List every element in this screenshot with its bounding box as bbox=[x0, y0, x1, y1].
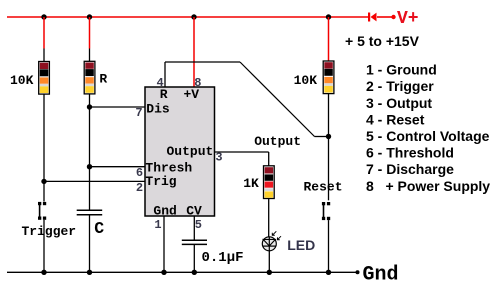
switch S1 Trigger bbox=[38, 202, 46, 220]
svg-text:3: 3 bbox=[215, 151, 222, 165]
svg-text:Dis: Dis bbox=[146, 101, 170, 116]
resistor R4 1K bbox=[264, 166, 275, 199]
svg-text:10K: 10K bbox=[10, 73, 34, 88]
diode D1 bbox=[368, 13, 396, 22]
svg-text:5: 5 bbox=[195, 218, 202, 232]
wire R1 to trigger switch bbox=[43, 94, 45, 202]
node junction gnd C2 bbox=[192, 270, 197, 275]
svg-text:Trigger: Trigger bbox=[22, 224, 77, 239]
svg-text:Gnd: Gnd bbox=[363, 264, 399, 287]
wire reset switch to rail bbox=[328, 220, 330, 272]
node junction top D bbox=[326, 14, 331, 19]
svg-text:7 - Discharge: 7 - Discharge bbox=[366, 161, 454, 177]
svg-text:Output: Output bbox=[166, 144, 213, 159]
capacitor C2 0.1uF bbox=[182, 240, 207, 244]
svg-text:+ 5 to +15V: + 5 to +15V bbox=[345, 33, 420, 49]
wire R2 branch down bbox=[89, 94, 91, 210]
svg-text:8: 8 bbox=[194, 76, 201, 90]
wire R3 to reset switch bbox=[328, 93, 330, 200]
wire pin 7 Dis bbox=[90, 106, 146, 108]
node junction reset bbox=[326, 134, 331, 139]
wire pin 4 bbox=[165, 62, 240, 87]
legend pin functions bbox=[366, 62, 490, 194]
wire rail to R3 bbox=[328, 17, 330, 61]
svg-text:3 - Output: 3 - Output bbox=[366, 95, 432, 111]
capacitor C1 C bbox=[77, 210, 103, 214]
svg-text:8 + Power Supply: 8 + Power Supply bbox=[366, 178, 490, 194]
svg-text:LED: LED bbox=[287, 237, 315, 253]
svg-text:Gnd: Gnd bbox=[153, 203, 176, 218]
svg-text:5 - Control Voltage: 5 - Control Voltage bbox=[366, 128, 490, 144]
node junction pin7 bbox=[87, 104, 92, 109]
svg-text:0.1µF: 0.1µF bbox=[202, 250, 244, 266]
wire 1K to LED bbox=[268, 199, 270, 238]
node junction pin2 bbox=[41, 179, 46, 184]
svg-text:4 - Reset: 4 - Reset bbox=[366, 111, 425, 127]
LED D2 bbox=[262, 231, 281, 251]
svg-text:R: R bbox=[99, 72, 107, 87]
svg-text:1K: 1K bbox=[243, 176, 259, 191]
node junction top C bbox=[191, 14, 196, 19]
wire V+ top rail bbox=[7, 16, 369, 18]
svg-text:Reset: Reset bbox=[304, 179, 343, 194]
resistor R1 10K bbox=[39, 62, 50, 95]
wire rail to R2 bbox=[89, 17, 91, 62]
node junction pin6 bbox=[87, 164, 92, 169]
node junction gnd A bbox=[41, 270, 46, 275]
wire C2 to rail bbox=[193, 244, 195, 272]
node junction gnd reset bbox=[326, 270, 331, 275]
svg-text:1 - Ground: 1 - Ground bbox=[366, 62, 437, 78]
svg-text:2 - Trigger: 2 - Trigger bbox=[366, 78, 434, 94]
node junction gnd B bbox=[87, 270, 92, 275]
node junction gnd LED bbox=[267, 270, 272, 275]
wire pin 2 Trig bbox=[44, 180, 145, 182]
svg-text:7: 7 bbox=[135, 106, 142, 120]
svg-text:6: 6 bbox=[136, 166, 143, 180]
node gnd terminal bbox=[356, 270, 360, 274]
wire pin 1 to rail bbox=[163, 216, 165, 272]
svg-text:C: C bbox=[94, 219, 104, 238]
resistor R3 10K bbox=[323, 61, 334, 94]
resistor R2 R bbox=[84, 61, 95, 94]
svg-text:1: 1 bbox=[154, 218, 161, 232]
svg-text:Output: Output bbox=[254, 134, 301, 149]
wire pin 5 to cap bbox=[193, 216, 195, 240]
svg-text:2: 2 bbox=[136, 181, 143, 195]
wire C to rail bbox=[89, 215, 91, 273]
svg-text:V+: V+ bbox=[397, 9, 419, 29]
switch S2 Reset bbox=[322, 202, 330, 220]
wire pin 3 output bbox=[215, 152, 269, 166]
op-amp U1 555 body bbox=[145, 87, 215, 216]
node junction top A bbox=[41, 14, 46, 19]
node junction gnd pin1 bbox=[161, 270, 166, 275]
wire rail to pin 8 bbox=[193, 17, 195, 87]
svg-text:6 - Threshold: 6 - Threshold bbox=[366, 145, 454, 161]
node junction top B bbox=[87, 14, 92, 19]
wire LED to rail bbox=[268, 251, 270, 272]
wire pin4 to reset diagonal bbox=[240, 62, 329, 137]
wire trigger switch to rail bbox=[43, 220, 45, 272]
wire rail to R1 bbox=[43, 17, 45, 62]
svg-text:10K: 10K bbox=[294, 73, 318, 88]
wire pin 6 Thresh bbox=[90, 166, 146, 168]
svg-text:Trig: Trig bbox=[145, 174, 176, 189]
svg-text:4: 4 bbox=[157, 76, 164, 90]
wire ground rail bbox=[7, 271, 357, 273]
